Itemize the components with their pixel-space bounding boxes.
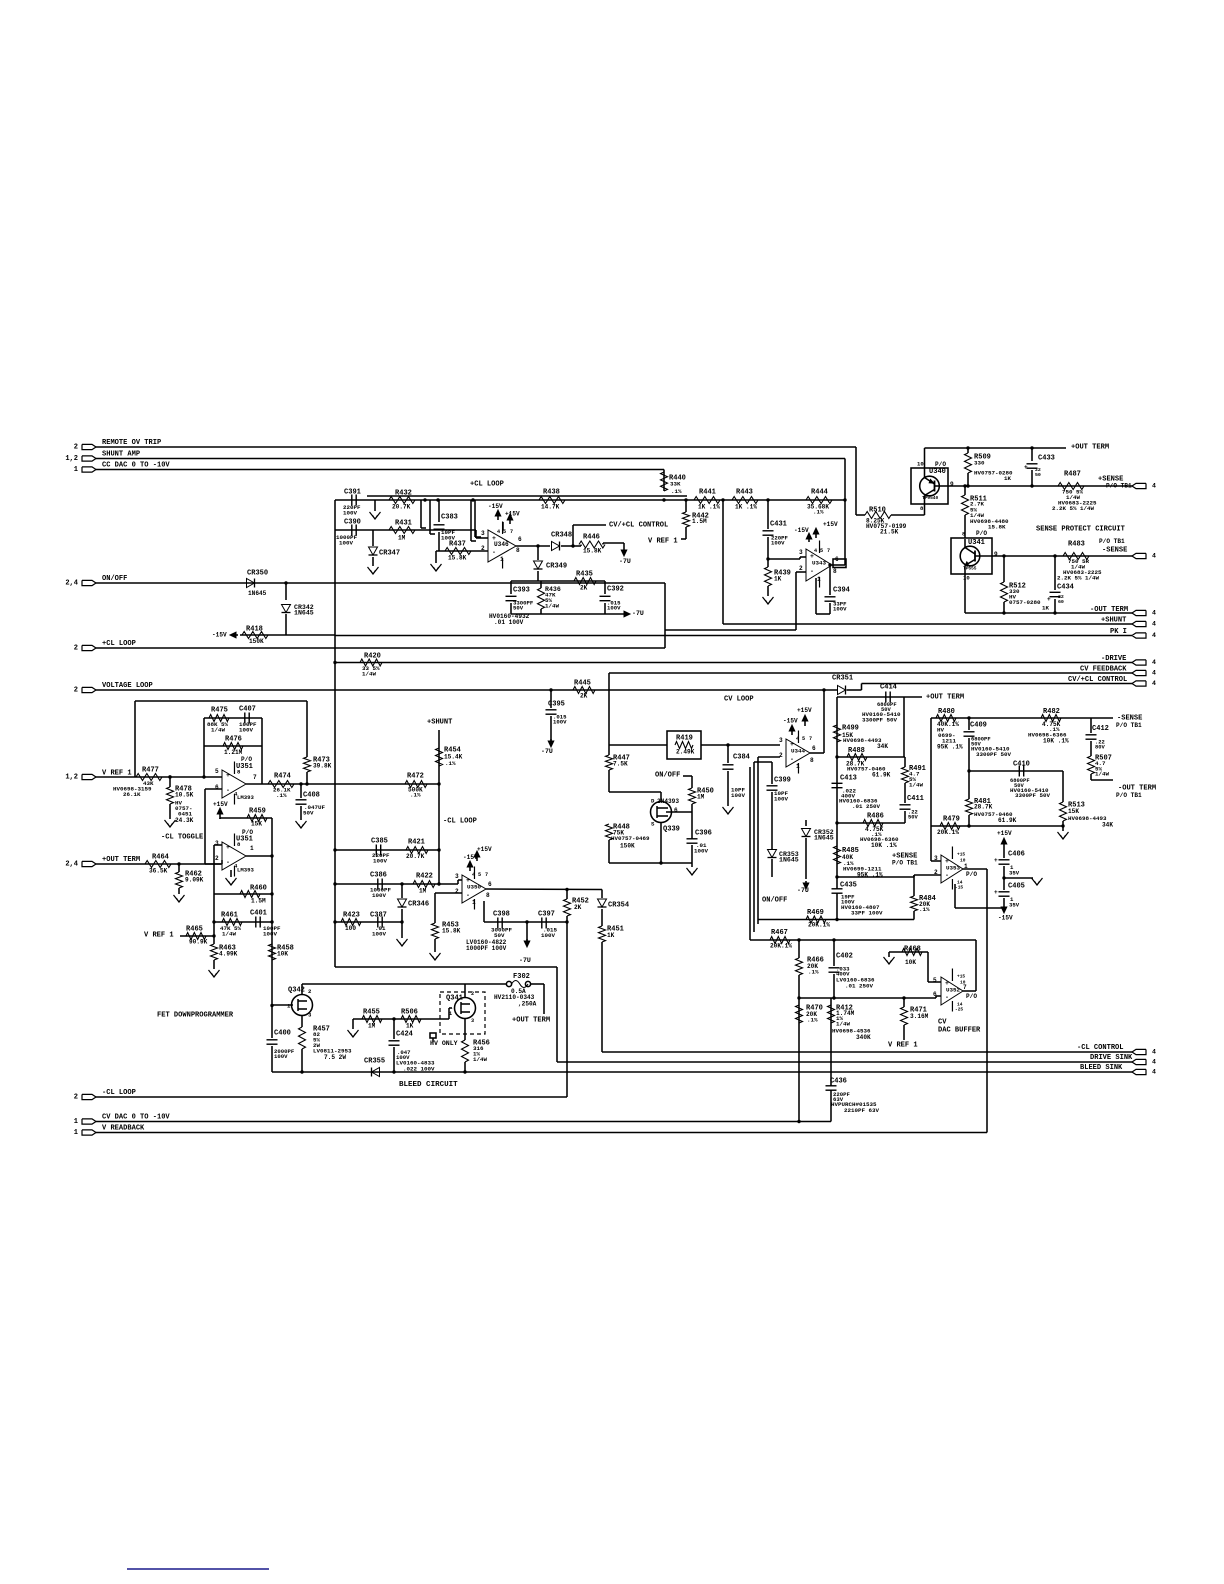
svg-text:2: 2: [799, 565, 803, 572]
svg-text:C414: C414: [880, 683, 898, 691]
svg-text:6: 6: [488, 881, 492, 888]
svg-text:R446: R446: [583, 533, 600, 541]
svg-text:P/O: P/O: [935, 461, 946, 468]
svg-text:.1%: .1%: [807, 1017, 818, 1024]
svg-text:CR355: CR355: [364, 1057, 385, 1065]
svg-text:15K: 15K: [251, 820, 262, 827]
svg-text:8: 8: [516, 547, 520, 554]
svg-text:-7U: -7U: [632, 610, 644, 617]
svg-text:14.7K: 14.7K: [541, 503, 560, 510]
svg-text:9.09K: 9.09K: [185, 876, 204, 883]
svg-text:C398: C398: [493, 910, 510, 918]
svg-text:340K: 340K: [856, 1034, 871, 1041]
svg-text:CR348: CR348: [551, 531, 572, 539]
svg-text:C405: C405: [1008, 882, 1025, 890]
svg-text:1M: 1M: [697, 793, 705, 800]
svg-text:1/4W: 1/4W: [909, 782, 923, 789]
svg-text:3300PF 50V: 3300PF 50V: [1015, 792, 1050, 799]
svg-text:ON/OFF: ON/OFF: [102, 575, 127, 583]
svg-text:95K .1%: 95K .1%: [937, 743, 963, 750]
svg-text:DRIVE SINK: DRIVE SINK: [1090, 1054, 1133, 1062]
svg-text:4: 4: [1152, 659, 1156, 666]
svg-text:R487: R487: [1064, 470, 1081, 478]
svg-text:-15V: -15V: [794, 527, 809, 534]
svg-text:C401: C401: [250, 909, 267, 917]
svg-text:R423: R423: [343, 911, 360, 919]
svg-text:0757-0280: 0757-0280: [1009, 599, 1041, 606]
svg-text:50V: 50V: [513, 604, 524, 611]
svg-text:+: +: [226, 772, 230, 779]
svg-text:34K: 34K: [1102, 821, 1113, 828]
svg-text:1000PF 100V: 1000PF 100V: [466, 945, 507, 952]
svg-text:100V: 100V: [553, 718, 567, 725]
svg-text:2K: 2K: [580, 584, 588, 591]
svg-text:100: 100: [345, 925, 356, 932]
svg-text:BLEED SINK: BLEED SINK: [1080, 1064, 1123, 1072]
svg-text:U350: U350: [467, 884, 481, 891]
svg-text:-15V: -15V: [783, 717, 798, 724]
svg-text:100V: 100V: [372, 931, 386, 938]
svg-text:V READBACK: V READBACK: [102, 1124, 145, 1132]
svg-text:1/4W: 1/4W: [1095, 771, 1109, 778]
svg-text:7: 7: [963, 984, 967, 991]
svg-text:3300PF 50V: 3300PF 50V: [862, 717, 897, 724]
svg-text:C387: C387: [370, 911, 387, 919]
svg-text:-15V: -15V: [488, 503, 503, 510]
svg-text:PK I: PK I: [1110, 628, 1127, 636]
svg-text:61.9K: 61.9K: [872, 771, 891, 778]
svg-text:60: 60: [1058, 599, 1064, 605]
svg-text:C399: C399: [774, 776, 791, 784]
svg-text:5: 5: [215, 768, 219, 775]
svg-text:10K .1%: 10K .1%: [871, 842, 897, 849]
svg-text:VOLTAGE LOOP: VOLTAGE LOOP: [102, 682, 153, 690]
svg-text:6: 6: [812, 745, 816, 752]
svg-text:CC DAC 0 TO -10V: CC DAC 0 TO -10V: [102, 461, 170, 469]
svg-text:C392: C392: [607, 585, 624, 593]
svg-text:C384: C384: [733, 753, 751, 761]
svg-text:1/4W: 1/4W: [362, 671, 376, 678]
svg-text:C409: C409: [970, 721, 987, 729]
svg-text:R437: R437: [449, 540, 466, 548]
svg-text:1/4W: 1/4W: [211, 727, 225, 734]
svg-text:50: 50: [1035, 472, 1041, 478]
svg-text:R477: R477: [142, 766, 159, 774]
svg-text:4: 4: [1152, 553, 1156, 560]
svg-text:+15: +15: [957, 852, 965, 858]
svg-text:2.49K: 2.49K: [676, 748, 695, 755]
svg-text:+: +: [994, 857, 998, 864]
svg-text:CR349: CR349: [546, 562, 567, 570]
svg-text:R510: R510: [869, 506, 886, 514]
svg-text:1: 1: [796, 763, 800, 770]
svg-text:CR350: CR350: [247, 569, 268, 577]
svg-text:CR354: CR354: [608, 901, 630, 909]
svg-text:-: -: [790, 756, 794, 763]
svg-text:10K: 10K: [905, 959, 916, 966]
svg-text:20K.1%: 20K.1%: [808, 921, 830, 928]
svg-text:C413: C413: [840, 774, 857, 782]
svg-text:2: 2: [74, 686, 78, 694]
svg-text:3.16M: 3.16M: [910, 1013, 929, 1020]
svg-text:U343: U343: [812, 560, 826, 567]
svg-text:-: -: [810, 568, 814, 575]
svg-text:1N645: 1N645: [248, 590, 267, 597]
svg-text:S: S: [651, 820, 655, 827]
svg-text:-: -: [945, 872, 949, 879]
svg-text:+15V: +15V: [505, 510, 520, 517]
svg-text:2K: 2K: [574, 904, 582, 911]
svg-text:-25: -25: [955, 1007, 963, 1013]
svg-text:3: 3: [308, 1011, 312, 1018]
svg-text:4: 4: [796, 736, 799, 742]
svg-text:7: 7: [809, 736, 812, 742]
svg-text:15K: 15K: [1068, 808, 1079, 815]
svg-text:R506: R506: [401, 1008, 418, 1016]
svg-text:R418: R418: [246, 625, 263, 633]
svg-text:P/O TB1: P/O TB1: [1116, 792, 1142, 799]
svg-text:8: 8: [920, 505, 924, 512]
svg-text:15.8K: 15.8K: [448, 554, 467, 561]
svg-text:V REF 1: V REF 1: [888, 1041, 918, 1049]
svg-text:LM393: LM393: [237, 866, 255, 873]
svg-text:U353: U353: [946, 865, 960, 872]
svg-text:100V: 100V: [372, 892, 386, 899]
svg-text:39.8K: 39.8K: [313, 762, 332, 769]
svg-text:.1%: .1%: [813, 509, 824, 516]
svg-text:C435: C435: [840, 881, 857, 889]
svg-text:CR351: CR351: [832, 674, 853, 682]
svg-text:100V: 100V: [339, 540, 353, 547]
svg-text:1,2: 1,2: [65, 455, 78, 463]
svg-text:-CL LOOP: -CL LOOP: [443, 817, 477, 825]
svg-text:10K: 10K: [277, 950, 288, 957]
svg-text:15.8K: 15.8K: [988, 524, 1006, 531]
svg-text:.1%: .1%: [808, 969, 819, 976]
svg-text:15.8K: 15.8K: [583, 547, 602, 554]
svg-text:+: +: [1024, 464, 1028, 471]
svg-text:C433: C433: [1038, 454, 1055, 462]
svg-text:C424: C424: [396, 1030, 414, 1038]
svg-text:+: +: [994, 889, 998, 896]
svg-text:1/4W: 1/4W: [222, 931, 236, 938]
svg-text:2.2K 5% 1/4W: 2.2K 5% 1/4W: [1052, 505, 1094, 512]
svg-text:R474: R474: [274, 772, 292, 780]
svg-text:R421: R421: [408, 838, 425, 846]
svg-text:24.3K: 24.3K: [175, 817, 194, 824]
svg-text:CV/+CL CONTROL: CV/+CL CONTROL: [609, 521, 668, 529]
svg-text:+CL LOOP: +CL LOOP: [470, 480, 504, 488]
svg-text:1: 1: [250, 845, 254, 852]
svg-text:-: -: [492, 549, 496, 556]
svg-text:4: 4: [1152, 483, 1156, 490]
svg-text:2: 2: [471, 991, 474, 997]
svg-text:1M: 1M: [419, 887, 427, 894]
svg-text:1/4W: 1/4W: [473, 1056, 487, 1063]
svg-text:8: 8: [833, 568, 837, 575]
svg-text:-DRIVE: -DRIVE: [1101, 655, 1126, 663]
svg-text:7: 7: [510, 529, 513, 535]
svg-text:CV DAC 0 TO -10V: CV DAC 0 TO -10V: [102, 1113, 170, 1121]
svg-text:.1%: .1%: [671, 488, 682, 495]
svg-text:P/O TB1: P/O TB1: [1099, 538, 1125, 545]
svg-text:+SHUNT: +SHUNT: [427, 718, 453, 726]
svg-text:1/4W: 1/4W: [545, 603, 559, 610]
svg-text:150K: 150K: [249, 638, 264, 645]
svg-text:C390: C390: [344, 518, 361, 526]
svg-text:100V: 100V: [274, 1053, 288, 1060]
svg-text:1/4W: 1/4W: [836, 1021, 850, 1028]
svg-text:4: 4: [1152, 680, 1156, 687]
svg-text:R488: R488: [848, 747, 865, 755]
svg-text:4: 4: [814, 548, 817, 554]
svg-text:Q339: Q339: [663, 825, 680, 833]
svg-text:4: 4: [1152, 632, 1156, 639]
svg-text:1K: 1K: [1004, 475, 1011, 482]
svg-text:15.8K: 15.8K: [442, 927, 461, 934]
svg-text:-CL LOOP: -CL LOOP: [102, 1089, 136, 1097]
svg-text:7.5 2W: 7.5 2W: [324, 1054, 346, 1061]
svg-text:-CL CONTROL: -CL CONTROL: [1077, 1044, 1124, 1052]
svg-text:C410: C410: [1013, 760, 1030, 768]
svg-text:50V: 50V: [303, 810, 314, 817]
svg-text:1: 1: [449, 1011, 452, 1017]
svg-text:BLEED CIRCUIT: BLEED CIRCUIT: [399, 1081, 458, 1089]
svg-text:2: 2: [74, 1093, 78, 1101]
svg-text:1: 1: [74, 1118, 78, 1126]
svg-text:2: 2: [74, 644, 78, 652]
svg-text:CV FEEDBACK: CV FEEDBACK: [1080, 665, 1127, 673]
svg-text:1K: 1K: [607, 932, 615, 939]
svg-text:100V: 100V: [373, 858, 387, 865]
svg-text:CR346: CR346: [408, 900, 429, 908]
svg-text:+OUT TERM: +OUT TERM: [926, 693, 964, 701]
svg-text:R441: R441: [699, 488, 716, 496]
svg-text:10.5K: 10.5K: [175, 791, 194, 798]
svg-text:R465: R465: [186, 925, 203, 933]
svg-text:6: 6: [518, 536, 522, 543]
svg-text:R464: R464: [152, 853, 170, 861]
svg-text:2K: 2K: [580, 692, 588, 699]
svg-text:C391: C391: [344, 488, 361, 496]
svg-text:F302: F302: [513, 973, 530, 981]
svg-text:LM393: LM393: [237, 794, 255, 801]
svg-text:U346: U346: [494, 541, 509, 548]
svg-text:28.7K: 28.7K: [974, 803, 993, 810]
svg-text:4: 4: [1152, 670, 1156, 677]
svg-text:3: 3: [799, 549, 803, 556]
svg-text:.01 250V: .01 250V: [852, 803, 880, 810]
svg-text:90.9K: 90.9K: [189, 938, 208, 945]
svg-text:1: 1: [817, 576, 821, 583]
svg-text:V REF 1: V REF 1: [648, 537, 678, 545]
svg-text:C394: C394: [833, 586, 851, 594]
svg-text:HV ONLY: HV ONLY: [430, 1040, 458, 1047]
svg-text:SHUNT AMP: SHUNT AMP: [102, 450, 140, 458]
svg-text:R443: R443: [736, 488, 753, 496]
svg-text:P/O: P/O: [966, 871, 977, 878]
svg-text:100V: 100V: [541, 932, 555, 939]
svg-text:P/O TB1: P/O TB1: [1116, 722, 1142, 729]
svg-text:100V: 100V: [833, 605, 847, 612]
svg-text:2210PF 63V: 2210PF 63V: [844, 1107, 879, 1114]
svg-text:100V: 100V: [607, 604, 621, 611]
svg-text:4: 4: [472, 872, 475, 878]
svg-text:4: 4: [1152, 1069, 1156, 1076]
svg-text:4: 4: [1152, 610, 1156, 617]
svg-text:7: 7: [827, 548, 830, 554]
svg-text:+: +: [1047, 596, 1051, 603]
svg-text:R467: R467: [771, 929, 788, 937]
svg-text:-7U: -7U: [797, 887, 809, 894]
svg-text:-SENSE: -SENSE: [1102, 546, 1127, 554]
svg-text:R461: R461: [221, 911, 238, 919]
svg-text:10K .1%: 10K .1%: [1043, 737, 1069, 744]
svg-text:R486: R486: [867, 812, 884, 820]
svg-text:+OUT TERM: +OUT TERM: [1071, 443, 1109, 451]
svg-text:C434: C434: [1057, 583, 1075, 591]
svg-text:R468: R468: [904, 945, 921, 953]
svg-text:C407: C407: [239, 705, 256, 713]
svg-text:330: 330: [974, 460, 985, 467]
svg-text:+15: +15: [957, 974, 965, 980]
svg-text:ON/OFF: ON/OFF: [655, 771, 680, 779]
svg-text:100V: 100V: [239, 727, 253, 734]
svg-text:1.5M: 1.5M: [251, 897, 266, 904]
svg-text:+: +: [226, 844, 230, 851]
svg-text:P/O: P/O: [966, 993, 977, 1000]
svg-text:P/O TB1: P/O TB1: [892, 859, 918, 866]
svg-text:1,2: 1,2: [65, 773, 78, 781]
svg-text:1K: 1K: [774, 575, 782, 582]
svg-text:-: -: [226, 787, 230, 794]
svg-text:R469: R469: [807, 909, 824, 917]
svg-text:DAC BUFFER: DAC BUFFER: [938, 1026, 981, 1034]
svg-text:R435: R435: [576, 570, 593, 578]
svg-text:R419: R419: [676, 734, 693, 742]
svg-text:3: 3: [779, 737, 783, 744]
svg-text:U341: U341: [968, 539, 985, 547]
svg-text:61.9K: 61.9K: [998, 817, 1017, 824]
svg-text:+15V: +15V: [997, 830, 1012, 837]
svg-text:REMOTE OV TRIP: REMOTE OV TRIP: [102, 439, 161, 447]
svg-text:V REF 1: V REF 1: [144, 931, 174, 939]
svg-text:CV: CV: [938, 1018, 947, 1026]
svg-text:21.5K: 21.5K: [880, 528, 899, 535]
svg-text:CR347: CR347: [379, 549, 400, 557]
svg-text:C402: C402: [836, 952, 853, 960]
svg-text:R459: R459: [249, 807, 266, 815]
svg-text:1N645: 1N645: [294, 610, 314, 617]
svg-text:U352: U352: [946, 987, 960, 994]
svg-text:TP9540: TP9540: [922, 495, 939, 501]
svg-text:.1%: .1%: [410, 792, 421, 799]
svg-text:+15V: +15V: [797, 707, 812, 714]
svg-text:3: 3: [455, 873, 459, 880]
svg-text:-15V: -15V: [212, 631, 227, 638]
svg-text:50V: 50V: [908, 813, 919, 820]
svg-text:-15: -15: [955, 885, 963, 891]
svg-text:4.99K: 4.99K: [219, 950, 238, 957]
svg-text:+OUT TERM: +OUT TERM: [512, 1016, 550, 1024]
svg-text:2,4: 2,4: [65, 860, 78, 868]
svg-text:8: 8: [810, 757, 814, 764]
svg-text:35V: 35V: [1009, 901, 1020, 908]
svg-text:1.21M: 1.21M: [224, 749, 243, 756]
svg-text:4: 4: [497, 529, 500, 535]
svg-text:7: 7: [485, 872, 488, 878]
svg-text:1: 1: [472, 899, 476, 906]
svg-text:.01 100V: .01 100V: [494, 619, 524, 626]
svg-text:+15V: +15V: [477, 846, 492, 853]
svg-text:R482: R482: [1043, 708, 1060, 716]
svg-text:R483: R483: [1068, 540, 1085, 548]
svg-text:3300PF 50V: 3300PF 50V: [976, 751, 1011, 758]
svg-text:2: 2: [215, 855, 219, 862]
svg-text:+15V: +15V: [823, 521, 838, 528]
svg-text:+CL LOOP: +CL LOOP: [102, 640, 136, 648]
svg-text:,250A: ,250A: [518, 1000, 537, 1007]
svg-text:150K: 150K: [620, 842, 635, 849]
svg-text:20.7K: 20.7K: [392, 503, 411, 510]
svg-text:.01 250V: .01 250V: [845, 983, 873, 990]
svg-text:2N4393: 2N4393: [657, 798, 679, 805]
svg-text:35V: 35V: [1009, 869, 1020, 876]
svg-text:C396: C396: [695, 829, 712, 837]
svg-text:2: 2: [481, 545, 485, 552]
svg-text:80V: 80V: [1095, 743, 1106, 750]
svg-text:1: 1: [287, 1002, 291, 1009]
svg-text:C395: C395: [548, 700, 565, 708]
svg-text:HV0757-0469: HV0757-0469: [611, 835, 650, 842]
svg-text:R472: R472: [407, 772, 424, 780]
svg-text:33K: 33K: [670, 481, 681, 488]
svg-text:C408: C408: [303, 791, 320, 799]
svg-text:+SHUNT: +SHUNT: [1101, 616, 1127, 624]
svg-text:5: 5: [820, 548, 823, 554]
svg-text:26.1K: 26.1K: [123, 791, 141, 798]
svg-text:+OUT TERM: +OUT TERM: [102, 856, 140, 864]
svg-text:P/O: P/O: [241, 756, 252, 763]
svg-text:100V: 100V: [771, 539, 785, 546]
svg-text:1K .1%: 1K .1%: [735, 503, 757, 510]
svg-text:10: 10: [917, 460, 924, 467]
svg-text:.1%: .1%: [276, 792, 287, 799]
svg-text:-CL TOGGLE: -CL TOGGLE: [161, 833, 203, 841]
svg-text:1M: 1M: [398, 534, 406, 541]
svg-text:100V: 100V: [343, 510, 357, 517]
svg-text:C383: C383: [441, 513, 458, 521]
svg-text:1.5M: 1.5M: [692, 518, 707, 525]
svg-text:3: 3: [481, 530, 485, 537]
svg-text:36.5K: 36.5K: [149, 867, 168, 874]
svg-text:P/O TB1: P/O TB1: [1106, 482, 1132, 489]
svg-text:C436: C436: [830, 1077, 847, 1085]
svg-text:-OUT TERM: -OUT TERM: [1090, 606, 1128, 614]
svg-text:R444: R444: [811, 488, 829, 496]
svg-text:C400: C400: [274, 1029, 291, 1037]
svg-text:1M: 1M: [368, 1022, 376, 1029]
svg-text:20.7K: 20.7K: [406, 853, 425, 860]
svg-text:1N645: 1N645: [779, 857, 799, 864]
svg-text:+15V: +15V: [213, 801, 228, 808]
svg-text:-15V: -15V: [998, 914, 1013, 921]
svg-text:-: -: [466, 892, 470, 899]
svg-text:C385: C385: [371, 837, 388, 845]
svg-text:R455: R455: [363, 1008, 380, 1016]
svg-text:FET DOWNPROGRAMMER: FET DOWNPROGRAMMER: [157, 1011, 234, 1019]
svg-text:1: 1: [74, 466, 78, 474]
